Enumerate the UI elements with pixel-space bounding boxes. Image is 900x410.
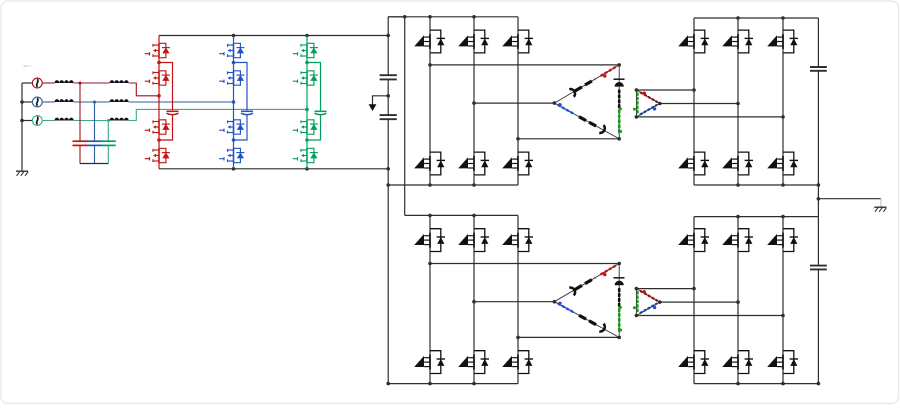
node DC+ leg B [232,34,236,38]
node DAB2 mid1 [428,262,432,266]
transformer T2 delta primary [553,262,625,340]
node DAB2 + leg2 [472,214,476,218]
transformer T2 delta secondary [633,287,662,318]
wire: DAB1 primary phase3 to transformer [518,138,619,140]
node output2 mid1 [692,287,696,291]
node phase-a capacitor tap [79,82,82,85]
node output1 mid3 [781,115,785,119]
node DAB1 + leg2 [472,15,476,19]
wire: DAB2 primary leg 2 [473,215,475,383]
MOSFET S23H [502,229,533,252]
node DAB1 mid3 [516,137,520,141]
MOSFET D12H [722,30,753,53]
wire: T1 secondary phase1 to output bridge [636,89,694,91]
node out1 + leg3 [781,16,785,20]
wire: output bridge 2 leg 3 [782,217,784,384]
node output2 mid2 [736,300,740,304]
wire: DAB2 primary phase3 to transformer [518,336,619,338]
node T1 primary top [617,63,621,67]
node DAB2 feed [403,15,407,19]
node leg C lower [305,138,309,142]
wire: AC neutral bus [21,83,23,171]
wire: T2 secondary phase3 to output bridge [636,315,783,317]
node output2 mid3 [781,314,785,318]
node DAB2 mid2 [472,300,476,304]
capacitor Cfb [94,102,96,141]
inductor Lb2 [110,99,129,102]
wire: T1 secondary phase3 to output bridge [636,116,783,118]
wire: DC+ feed down to lower DAB bridge [404,17,406,216]
MOSFET D13L [767,152,798,175]
MOSFET D11L [678,152,709,175]
MOSFET D21H [678,229,709,252]
node out2 - rail end [817,382,821,386]
node DC+ leg C [305,34,309,38]
MOSFET Qb1 [219,43,244,57]
wire: midpoint to reference arrow [373,96,389,105]
MOSFET Qa3 [145,120,170,134]
node T1 primary left [553,101,557,105]
node neutral-c [20,119,24,123]
MOSFET D23H [767,229,798,252]
node out2 - leg3 [781,382,785,386]
AC source Vb [22,101,32,103]
inductor La1 [55,80,74,83]
node DAB1 mid1 [428,63,432,67]
node out1 - leg2 [736,183,740,187]
node leg B upper [232,61,236,65]
wire: DAB2 primary leg 3 [517,215,519,383]
wire: DAB2 primary leg 1 [429,215,431,383]
wire: converter leg A [158,36,160,169]
node T2 primary left [553,300,557,304]
wire: converter leg C [306,36,308,169]
MOSFET Qa1 [145,43,170,57]
MOSFET D23L [767,351,798,374]
wire: output bridge 2 + rail [694,216,818,218]
wire: DC+ link to upper DAB [388,16,405,18]
MOSFET D12L [722,152,753,175]
wire: DAB2 primary phase2 to transformer [474,301,554,303]
MOSFET D11H [678,30,709,53]
MOSFET Qb2 [219,71,244,85]
ground reference arrow [369,104,377,111]
wire: DAB1 primary phase2 to transformer [474,102,554,104]
wire: T1 secondary phase2 to output bridge [660,103,738,105]
node T1 secondary top [635,88,639,92]
node leg B lower [232,138,236,142]
node DC- bus tap [386,167,390,171]
wire: output 2 DC rail [817,217,819,384]
output capacitor Co1 [810,66,827,68]
flying capacitor Cflya [159,63,173,111]
node DAB2 mid3 [516,336,520,340]
node out1 - rail end [817,183,821,187]
node T2 secondary top [635,287,639,291]
wire: rectifier DC- rail [159,168,388,170]
node DAB1 mid2 [472,101,476,105]
flying capacitor Cflyb [234,63,248,111]
MOSFET S22L [458,351,489,374]
wire: DAB1 primary leg 3 [517,17,519,185]
wire: DAB1 primary bridge - rail [388,184,518,186]
wire: phase a to converter leg A [129,83,159,96]
wire: phase c between filter stages [74,120,110,122]
node DAB2 - bus [386,382,390,386]
wire: output bridge 2 - rail [694,383,818,385]
inductor Lb1 [55,99,74,102]
node leg A lower [157,138,161,142]
node neutral-b [20,100,24,104]
wire: output bridge 1 - rail [694,184,818,186]
MOSFET S21H [414,229,445,252]
node T2 secondary right [658,300,662,304]
node DAB2 - leg1 [428,382,432,386]
wire: output bridge 1 leg 3 [782,18,784,185]
flying capacitor Cflyc [307,63,321,111]
node DAB1 + leg1 [428,15,432,19]
wire: DAB1 primary bridge + rail [388,16,518,18]
node leg C upper [305,61,309,65]
wire: output bridge 1 + rail [694,17,818,19]
wire: DAB1 primary leg 2 [473,17,475,185]
wire: output bridge 2 leg 2 [737,217,739,384]
node DAB1 - leg1 [428,183,432,187]
node T1 secondary bottom [635,115,639,119]
MOSFET Qc2 [293,71,318,85]
capacitor Cfc [107,121,109,142]
node output midpoint [817,197,821,201]
MOSFET Qc4 [293,148,318,162]
MOSFET D21L [678,351,709,374]
AC source Va [22,82,32,84]
node leg A upper [157,61,161,65]
wire: phase c to converter leg C [129,109,307,120]
node output1 mid1 [692,88,696,92]
MOSFET Qc1 [293,43,318,57]
node phase-b capacitor tap [93,101,96,104]
wire: DAB2 primary bridge + rail [405,214,518,216]
node out2 + leg3 [781,215,785,219]
MOSFET D22H [722,229,753,252]
node T2 primary bottom [617,336,621,340]
node T1 secondary right [658,102,662,106]
wire: converter leg B [233,36,235,169]
ground [16,171,28,176]
node leg C mid [305,108,309,112]
MOSFET S11L [414,152,445,175]
wire: output 1 DC rail [817,18,819,185]
wire: DAB1 primary phase1 to transformer [430,64,619,66]
transformer T1 delta primary [553,63,625,141]
transformer T1 delta secondary [633,88,662,119]
node DAB1 - leg2 [472,183,476,187]
MOSFET S12L [458,152,489,175]
wire: phase b to converter leg B [129,101,234,103]
AC source Vc [22,120,32,122]
MOSFET Qa2 [145,71,170,85]
MOSFET S13L [502,152,533,175]
node out1 + leg2 [736,16,740,20]
node phase-c capacitor tap [107,119,110,122]
MOSFET S22H [458,229,489,252]
wire: T2 secondary phase1 to output bridge [636,288,694,290]
wire: DAB2 primary bridge - rail [388,383,518,385]
wire: output bridge 2 leg 1 [693,217,695,384]
node DC- leg C [305,167,309,171]
MOSFET Qa4 [145,148,170,162]
capacitor Cfa [79,83,81,141]
MOSFET Qc3 [293,120,318,134]
MOSFET Qb3 [219,120,244,134]
wire: rectifier DC+ rail [159,35,388,37]
ground [874,207,886,212]
node out2 + leg2 [736,215,740,219]
node out1 - leg3 [781,183,785,187]
wire: filter star point [80,163,108,165]
MOSFET S12H [458,30,489,53]
node DC+ bus tap [386,34,390,38]
wire: phase b between filter stages [74,101,110,103]
wire: DAB1 primary leg 1 [429,17,431,185]
MOSFET Qb4 [219,148,244,162]
output capacitor Co2 [810,265,827,267]
node out2 - leg2 [736,382,740,386]
wire: output bridge 1 leg 2 [737,18,739,185]
MOSFET S13H [502,30,533,53]
node output1 mid2 [736,102,740,106]
node DC midpoint [386,94,390,98]
node leg B mid [232,100,236,104]
inductor Lc2 [110,118,129,121]
MOSFET D22L [722,351,753,374]
node leg A mid [157,94,161,98]
node T2 primary top [617,262,621,266]
node T2 secondary bottom [635,314,639,318]
wire: DAB2 primary phase1 to transformer [430,263,619,265]
wire: output series link [817,185,819,217]
MOSFET S21L [414,351,445,374]
wire: phase a between filter stages [74,82,110,84]
inductor Lc1 [55,118,74,121]
node DAB2 + leg1 [428,214,432,218]
node DC- leg B [232,167,236,171]
MOSFET S11H [414,30,445,53]
node T1 primary bottom [617,137,621,141]
wire: T2 secondary phase2 to output bridge [660,301,738,303]
MOSFET S23L [502,351,533,374]
inductor La2 [110,80,129,83]
node DAB1 - bus [386,183,390,187]
MOSFET D13H [767,30,798,53]
wire: output bridge 1 leg 1 [693,18,695,185]
node DAB2 - leg2 [472,382,476,386]
wire: output midpoint to ground [818,198,881,200]
capacitor Cdc1 [380,74,397,76]
capacitor Cdc2 [380,114,397,116]
wire: DC bus vertical [387,17,389,384]
